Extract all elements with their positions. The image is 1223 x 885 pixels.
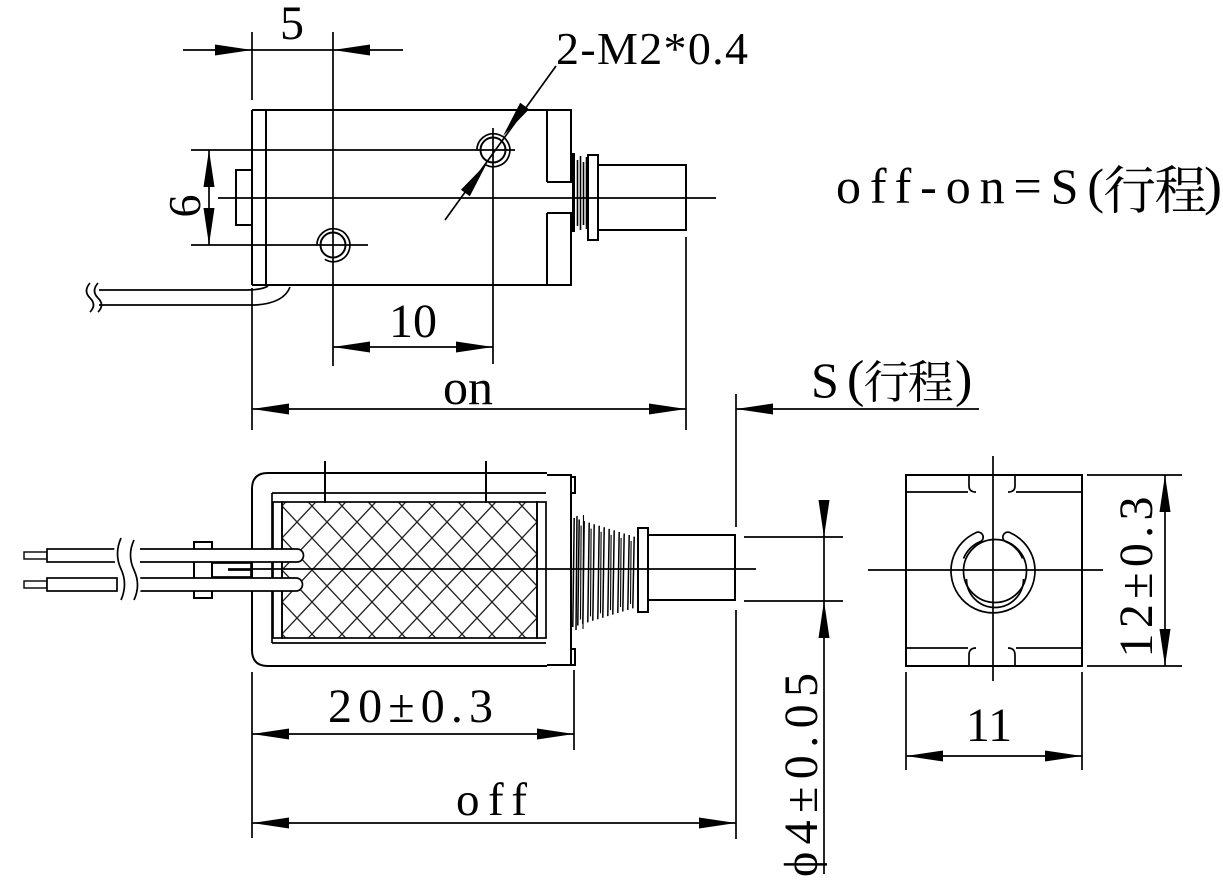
retaining clip outer ring bbox=[951, 557, 1035, 613]
plunger shaft (top view) bbox=[598, 165, 686, 230]
dim 10 arrows bbox=[333, 342, 370, 353]
end view centerlines bbox=[992, 456, 994, 681]
lead wire (top view) bbox=[99, 286, 290, 305]
mounting hole H2 tapped circle bbox=[481, 138, 506, 163]
lead wire 1 bare end bbox=[24, 552, 47, 559]
coil lead connector block detail bbox=[212, 563, 251, 577]
mounting hole H1 thread arc bbox=[317, 229, 350, 262]
coil winding cross-hatch bbox=[282, 502, 537, 638]
svg-text:5: 5 bbox=[280, 0, 304, 50]
dim S extension line bbox=[735, 394, 737, 527]
svg-text:S: S bbox=[811, 352, 839, 408]
thread callout leader bbox=[445, 66, 556, 220]
lead wire 1 right segment bbox=[140, 549, 304, 562]
dim 11 extension lines bbox=[905, 672, 907, 770]
dim 11 arrows bbox=[906, 751, 943, 762]
left terminal tab (top view) bbox=[236, 170, 252, 225]
end view square body bbox=[906, 475, 1082, 666]
dim 6 dimension line bbox=[208, 150, 210, 245]
retaining clip right prong bbox=[1003, 532, 1033, 558]
dim on arrows bbox=[252, 404, 289, 415]
centerline of plunger axis (side view) bbox=[228, 568, 756, 570]
plunger flange washer (side view) bbox=[638, 528, 648, 612]
svg-text:off-on=S(: off-on=S( bbox=[836, 158, 1104, 214]
end plate (side view) bbox=[547, 475, 575, 665]
retaining clip left prong bbox=[954, 532, 984, 558]
svg-text:off: off bbox=[456, 774, 527, 826]
dim phi4 dimension line bbox=[823, 505, 825, 874]
dim phi4 arrows bbox=[819, 500, 830, 537]
return spring (top view) bbox=[572, 153, 575, 232]
dim 5 arrows bbox=[215, 45, 252, 56]
svg-text:(: ( bbox=[847, 351, 864, 408]
shell inner lines (side view) bbox=[272, 493, 546, 643]
terminal block bbox=[194, 542, 212, 598]
wire break symbol (side view) bbox=[118, 538, 138, 600]
dim off dimension line bbox=[252, 822, 736, 824]
svg-text:on: on bbox=[443, 359, 493, 415]
dim 10 extension line bbox=[492, 128, 494, 364]
mounting hole H2 thread arc bbox=[477, 134, 510, 167]
mounting hole H1 tapped circle bbox=[321, 233, 346, 258]
dim 12 extension lines bbox=[1087, 474, 1182, 476]
dim off arrows bbox=[252, 818, 289, 829]
plunger flange washer (top view) bbox=[588, 155, 598, 240]
dim 20 dimension line bbox=[252, 733, 574, 735]
dim phi4 extension lines bbox=[744, 536, 843, 538]
dim 10 dimension line bbox=[333, 346, 493, 348]
end view inner edge lines bbox=[906, 492, 1082, 648]
dim 5 dimension line bbox=[183, 49, 403, 51]
solenoid body outline (top view) bbox=[252, 110, 572, 285]
centerline of plunger axis (top view) bbox=[218, 197, 716, 199]
dim 20 extension lines bbox=[251, 672, 253, 838]
end view tab slots bbox=[969, 476, 1015, 665]
thread callout arrows bbox=[499, 103, 530, 139]
dim S label hanzi bbox=[865, 360, 908, 402]
plunger shaft (side view) bbox=[648, 535, 735, 600]
coil pin marks bbox=[324, 461, 326, 503]
dim 12 dimension line bbox=[1164, 475, 1166, 666]
lead wire break symbol (top view) bbox=[87, 283, 102, 312]
svg-text:10: 10 bbox=[389, 295, 437, 348]
dim 6 arrows bbox=[204, 150, 215, 187]
coil bobbin left flange bbox=[273, 502, 282, 638]
dim S dimension line with arrow bbox=[736, 408, 979, 410]
svg-text:): ) bbox=[955, 351, 972, 408]
dim 11 dimension line bbox=[906, 755, 1082, 757]
dim 5 extension lines bbox=[251, 32, 253, 100]
coil bobbin right flange bbox=[537, 502, 546, 638]
lead wire 2 left segment bbox=[47, 578, 117, 591]
shell outline (side view) bbox=[252, 473, 547, 666]
svg-text:): ) bbox=[1204, 156, 1222, 216]
dim 20 arrows bbox=[252, 729, 289, 740]
dim 12 arrows bbox=[1160, 475, 1171, 512]
dim 6 extension lines bbox=[191, 149, 515, 151]
svg-text:6: 6 bbox=[159, 195, 210, 218]
svg-text:2-M2*0.4: 2-M2*0.4 bbox=[556, 23, 748, 74]
return spring (side view) bbox=[573, 518, 574, 627]
lead wire 2 right segment bbox=[140, 578, 303, 591]
plunger hole circle bbox=[964, 540, 1027, 603]
dim on extension lines bbox=[251, 288, 253, 430]
dim on dimension line bbox=[252, 408, 686, 410]
formula hanzi bbox=[1105, 165, 1154, 213]
svg-text:11: 11 bbox=[966, 699, 1012, 752]
lead wire 1 left segment bbox=[47, 549, 117, 562]
lead wire 2 bare end bbox=[24, 581, 47, 588]
clip wire inner arc bbox=[967, 579, 1024, 608]
